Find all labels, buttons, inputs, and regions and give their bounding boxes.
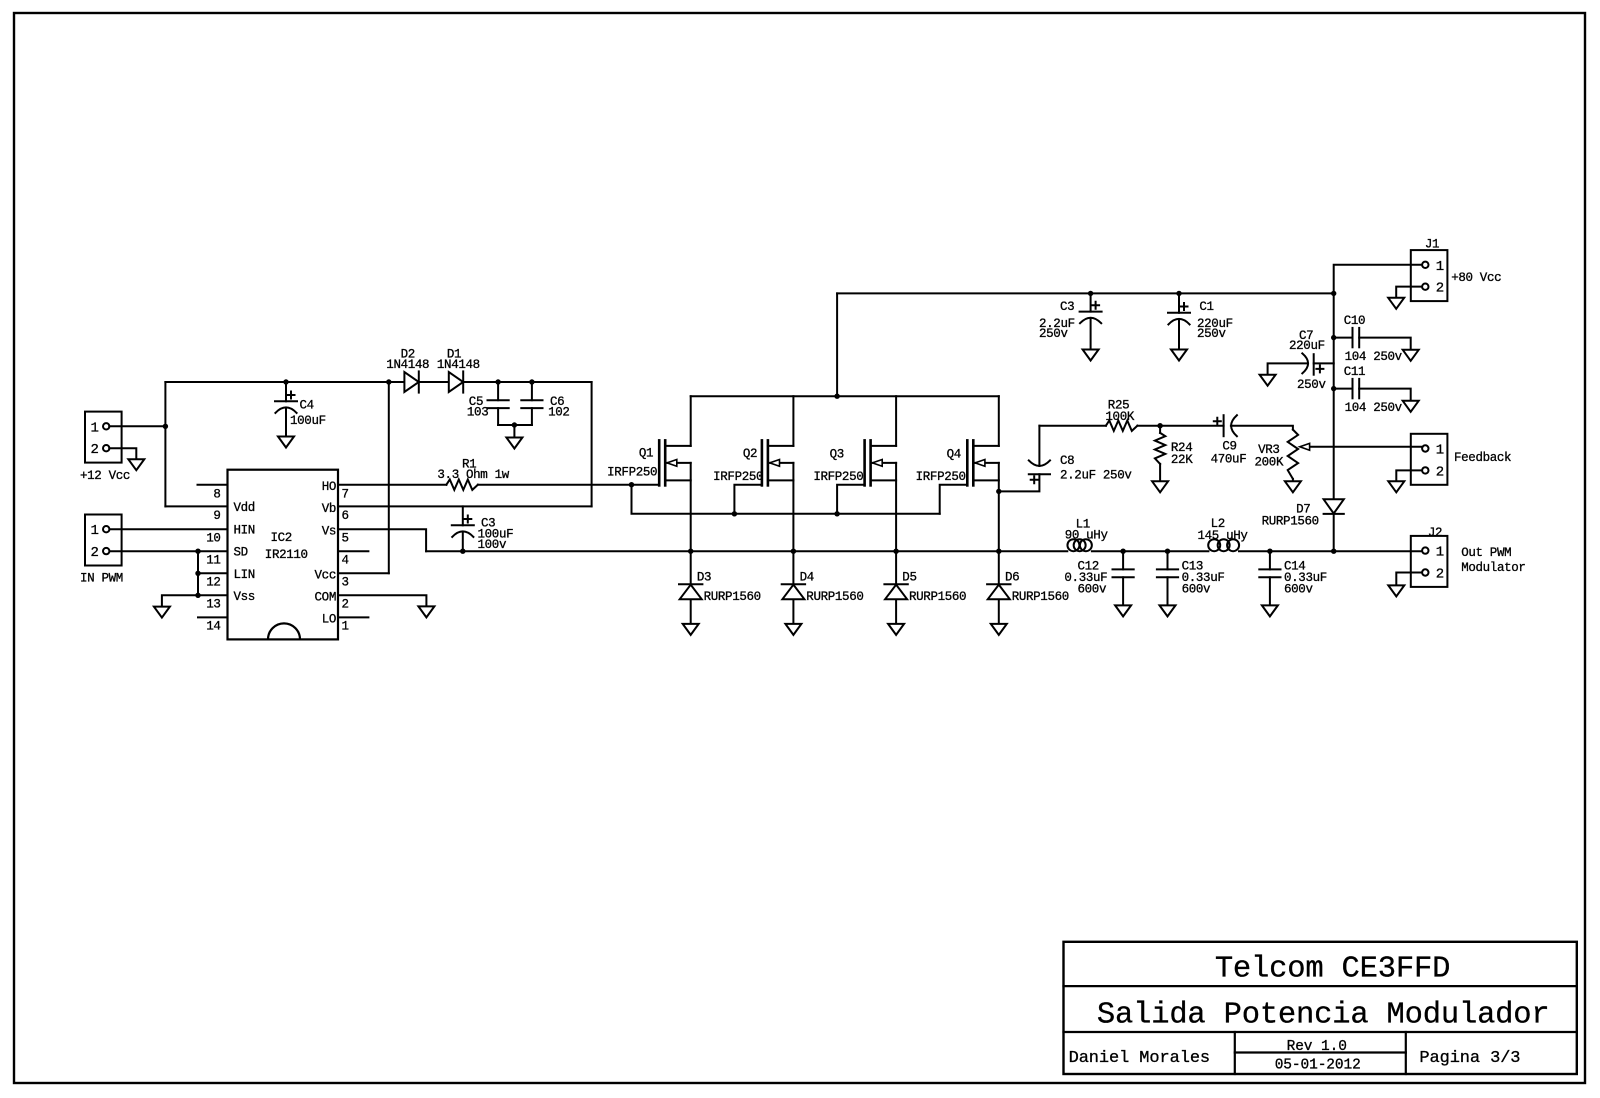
wire D6 anode to ground xyxy=(998,600,1000,624)
svg-text:10: 10 xyxy=(206,532,220,546)
wire Q4 gate riser xyxy=(940,485,968,514)
wire C13 stem xyxy=(1167,551,1169,569)
resistor R25 100K xyxy=(1106,421,1138,431)
junction C1 xyxy=(1176,291,1181,296)
inductor L2 145 uHy xyxy=(1208,539,1220,551)
connector J2 xyxy=(1411,536,1448,587)
wire C13 to ground xyxy=(1167,577,1169,605)
wire C14 to ground xyxy=(1269,577,1271,605)
capacitor C3 2.2uF 250v xyxy=(1080,311,1102,313)
svg-text:2: 2 xyxy=(342,598,349,612)
wire drain rail xyxy=(691,395,999,397)
svg-text:100v: 100v xyxy=(478,538,507,552)
ground (C11) xyxy=(1403,401,1419,412)
resistor R24 22K xyxy=(1155,433,1165,464)
svg-text:3.3 Ohm 1w: 3.3 Ohm 1w xyxy=(437,468,509,482)
wire J2 pin2 to ground xyxy=(1396,573,1421,586)
svg-text:103: 103 xyxy=(467,406,488,420)
capacitor C6 102 xyxy=(521,399,542,401)
wire C6 stem xyxy=(531,382,533,400)
svg-text:1: 1 xyxy=(1436,443,1444,459)
svg-text:Telcom CE3FFD: Telcom CE3FFD xyxy=(1215,953,1450,987)
wire R24 bottom lead xyxy=(1159,464,1161,481)
ground (COM) xyxy=(418,606,434,617)
svg-text:600v: 600v xyxy=(1284,583,1313,597)
junction C6/rail xyxy=(529,379,534,384)
svg-text:+80 Vcc: +80 Vcc xyxy=(1451,271,1501,285)
junction Q1 source / bus xyxy=(688,549,693,554)
capacitor C9 470uF (electrolytic, horizontal) xyxy=(1223,415,1225,436)
transistor Q3 (IRFP250 N-MOSFET) xyxy=(863,440,866,485)
wire Vb corner drop xyxy=(591,382,593,506)
wire IC2 Vs pin 5 jog xyxy=(338,529,426,551)
svg-text:C3: C3 xyxy=(1060,300,1074,314)
svg-text:C4: C4 xyxy=(300,399,314,413)
svg-text:RURP1560: RURP1560 xyxy=(1012,590,1069,604)
svg-text:C11: C11 xyxy=(1344,365,1365,379)
diode D6 RURP1560 xyxy=(987,583,1010,585)
svg-text:600v: 600v xyxy=(1182,583,1211,597)
svg-text:Vcc: Vcc xyxy=(315,568,336,582)
IC2 pin 10 HIN wire from IN PWM pin1 xyxy=(109,528,227,530)
svg-text:Q3: Q3 xyxy=(830,448,844,462)
wire D4 anode to ground xyxy=(792,600,794,624)
diode D5 RURP1560 xyxy=(884,583,907,585)
wire C4 stem xyxy=(285,382,287,401)
svg-text:220uF: 220uF xyxy=(1289,339,1325,353)
wire D6 cathode stem xyxy=(998,551,1000,584)
svg-text:HIN: HIN xyxy=(234,524,255,538)
wire C3 bottom to Vs bus xyxy=(462,532,464,551)
wire gate bus xyxy=(632,485,940,514)
junction C3/Vs bus xyxy=(460,549,465,554)
wire C5-C6 common xyxy=(498,424,532,426)
junction C5/rail xyxy=(495,379,500,384)
wire D2 cathode to D1 anode xyxy=(419,381,449,383)
wire C11 left xyxy=(1334,388,1353,390)
junction C13 / bus xyxy=(1165,549,1170,554)
svg-text:Daniel Morales: Daniel Morales xyxy=(1069,1049,1210,1068)
wire C3b to ground xyxy=(1090,318,1092,349)
ground (C4) xyxy=(278,437,294,448)
wire C5 stem xyxy=(497,382,499,400)
svg-text:RURP1560: RURP1560 xyxy=(806,590,863,604)
wire C10 left xyxy=(1334,337,1353,339)
svg-text:IRFP250: IRFP250 xyxy=(607,466,657,480)
wire +80V feed riser xyxy=(836,293,838,396)
IC2 pin 11 SD wire from IN PWM pin2 xyxy=(109,550,227,552)
junction drain rail / +80V feed xyxy=(834,394,839,399)
wire +80V top rail xyxy=(837,292,1334,294)
connector J-+12Vcc xyxy=(85,412,122,463)
ground (D3) xyxy=(683,624,699,635)
svg-text:5: 5 xyxy=(342,532,349,546)
Feedback pin 1 xyxy=(1422,445,1428,451)
transistor Q1 (IRFP250 N-MOSFET) xyxy=(658,440,661,485)
IC2 pin 8 stub xyxy=(198,484,228,486)
svg-text:IR2110: IR2110 xyxy=(265,548,308,562)
capacitor C11 104 250v xyxy=(1352,379,1354,398)
capacitor C10 104 250v xyxy=(1352,328,1354,347)
svg-text:2: 2 xyxy=(1436,281,1444,297)
svg-text:Out PWM: Out PWM xyxy=(1461,546,1511,560)
wire C1 to ground xyxy=(1178,319,1180,349)
svg-text:145 uHy: 145 uHy xyxy=(1198,529,1249,543)
svg-text:90 uHy: 90 uHy xyxy=(1065,528,1109,542)
ground (C14) xyxy=(1262,605,1278,616)
junction C10 xyxy=(1331,335,1336,340)
junction Q4 source / bus xyxy=(996,549,1001,554)
junction SD xyxy=(195,549,200,554)
svg-text:C10: C10 xyxy=(1344,314,1365,328)
junction top rail / J1 bus xyxy=(1331,291,1336,296)
wire C10 right to ground xyxy=(1359,338,1411,350)
junction C3b xyxy=(1088,291,1093,296)
svg-text:Q2: Q2 xyxy=(743,447,757,461)
svg-text:600v: 600v xyxy=(1078,583,1107,597)
svg-text:13: 13 xyxy=(206,598,220,612)
svg-text:Salida Potencia Modulador: Salida Potencia Modulador xyxy=(1097,999,1550,1033)
svg-text:D3: D3 xyxy=(697,571,711,585)
svg-text:4: 4 xyxy=(342,553,349,567)
svg-text:Vs: Vs xyxy=(322,524,336,538)
wire +12Vcc pin2 jog to ground xyxy=(109,448,136,459)
ground (VR3) xyxy=(1285,481,1301,492)
svg-text:05-01-2012: 05-01-2012 xyxy=(1275,1058,1361,1074)
junction C11 xyxy=(1331,386,1336,391)
wire R1 to Q1 gate xyxy=(478,484,659,486)
wire IC2 Vcc pin 3 xyxy=(338,572,389,574)
wire Q3 gate riser xyxy=(837,485,865,514)
svg-text:470uF: 470uF xyxy=(1211,453,1247,467)
potentiometer VR3 200K xyxy=(1288,430,1298,479)
wire C8 bottom to Q4 source xyxy=(999,474,1040,491)
wire bus right of L2 to J2 xyxy=(1239,550,1421,552)
svg-text:IN PWM: IN PWM xyxy=(80,572,123,586)
capacitor C7 220uF 250v (electrolytic, horizontal) xyxy=(1302,353,1308,373)
svg-text:1: 1 xyxy=(91,523,99,539)
connector Feedback xyxy=(1411,434,1448,485)
IC2 pin 12 LIN wire xyxy=(198,572,228,574)
svg-text:12: 12 xyxy=(206,576,220,590)
wire Vb line to IC2 xyxy=(338,505,592,507)
junction gate bus tap xyxy=(629,482,634,487)
ground (J1 pin2) xyxy=(1388,298,1404,309)
diode D1 1N4148 xyxy=(449,372,463,392)
wire C4 to ground xyxy=(285,408,287,437)
wire +12Vcc pin1 to Vdd node xyxy=(109,425,165,427)
svg-text:1N4148: 1N4148 xyxy=(437,358,480,372)
wire J1 pin1 feed xyxy=(1334,265,1422,294)
wire D4 cathode stem xyxy=(792,551,794,584)
capacitor C3 100uF 100v (bootstrap) xyxy=(452,524,474,526)
connector J-INPWM xyxy=(85,515,122,566)
ground (C10) xyxy=(1403,350,1419,361)
junction C5/C6 ground node xyxy=(512,422,517,427)
capacitor C5 103 xyxy=(488,399,509,401)
wire D5 anode to ground xyxy=(895,600,897,624)
wire Vs output bus (left of L1) xyxy=(426,550,1067,552)
capacitor C4 100uF (electrolytic) xyxy=(275,400,297,402)
svg-text:250v: 250v xyxy=(1197,327,1226,341)
ground (R24) xyxy=(1152,481,1168,492)
svg-text:D6: D6 xyxy=(1005,571,1019,585)
svg-text:14: 14 xyxy=(206,620,220,634)
wire C12 stem xyxy=(1122,551,1124,569)
wire R24 top lead xyxy=(1159,426,1161,433)
ground (J2 pin2) xyxy=(1388,585,1404,596)
svg-text:2: 2 xyxy=(91,442,99,458)
svg-text:D4: D4 xyxy=(800,571,814,585)
svg-text:Vdd: Vdd xyxy=(234,501,255,515)
svg-text:LO: LO xyxy=(322,613,336,627)
wire C3 stem from Vb xyxy=(462,506,464,525)
wire D5 cathode stem xyxy=(895,551,897,584)
svg-text:200K: 200K xyxy=(1255,455,1284,469)
resistor R1 3.3 Ohm 1w xyxy=(446,480,478,490)
wire C11 right to ground xyxy=(1359,389,1411,401)
junction Q3 source / bus xyxy=(893,549,898,554)
IC2 pin 4 stub xyxy=(338,550,368,552)
junction R24 xyxy=(1157,423,1162,428)
svg-text:Feedback: Feedback xyxy=(1454,451,1511,465)
svg-text:Vss: Vss xyxy=(234,590,255,604)
wire VR3 bottom lead xyxy=(1292,479,1294,481)
wire R25 to C9 xyxy=(1137,425,1223,427)
wire C3b stem xyxy=(1090,293,1092,311)
junction C4/top rail xyxy=(283,379,288,384)
IC2 pin 2 COM wire to ground xyxy=(338,595,426,606)
svg-text:IRFP250: IRFP250 xyxy=(916,470,966,484)
wire IC2 HO pin 7 xyxy=(338,484,446,486)
svg-text:1: 1 xyxy=(1436,259,1444,275)
wire D3 anode to ground xyxy=(690,600,692,624)
svg-text:104 250v: 104 250v xyxy=(1345,350,1403,364)
svg-text:8: 8 xyxy=(213,487,220,501)
svg-text:Q4: Q4 xyxy=(947,448,961,462)
wire Q2 gate riser xyxy=(734,485,762,514)
wire Feedback pin2 to ground xyxy=(1396,470,1421,481)
junction Q3 gate riser xyxy=(834,511,839,516)
svg-text:C8: C8 xyxy=(1060,454,1074,468)
svg-text:7: 7 xyxy=(342,487,349,501)
wire C9 to VR3 xyxy=(1231,426,1293,430)
diode D2 1N4148 xyxy=(404,372,418,392)
op-amp/driver IC2 IR2110 body xyxy=(228,470,339,640)
svg-text:RURP1560: RURP1560 xyxy=(1262,514,1319,528)
svg-text:9: 9 xyxy=(213,509,220,523)
ground (Feedback pin2) xyxy=(1388,481,1404,492)
junction Q4 source / C8 xyxy=(996,489,1001,494)
svg-text:102: 102 xyxy=(548,406,569,420)
svg-text:J2: J2 xyxy=(1428,526,1442,540)
svg-text:C1: C1 xyxy=(1199,300,1213,314)
svg-text:Rev 1.0: Rev 1.0 xyxy=(1287,1039,1347,1055)
wire +12V top rail xyxy=(165,381,404,383)
svg-text:2: 2 xyxy=(1436,464,1444,480)
svg-text:RURP1560: RURP1560 xyxy=(704,590,761,604)
svg-text:D5: D5 xyxy=(902,571,916,585)
wire C14 stem xyxy=(1269,551,1271,569)
svg-text:Vb: Vb xyxy=(322,502,336,516)
ground (Vss) xyxy=(154,607,170,618)
ground (C3b) xyxy=(1083,350,1099,361)
svg-text:2: 2 xyxy=(1436,567,1444,583)
wire C12 to ground xyxy=(1122,577,1124,605)
wire C8 top stem xyxy=(1038,426,1040,466)
wire SD/LIN/Vss tie bus xyxy=(197,551,199,595)
wire C1 stem xyxy=(1178,293,1180,312)
wire to ground xyxy=(513,425,515,438)
diode D4 RURP1560 xyxy=(782,583,805,585)
wire C8/R25 xyxy=(1039,425,1106,427)
transistor Q2 (IRFP250 N-MOSFET) xyxy=(761,440,764,485)
svg-text:COM: COM xyxy=(315,590,336,604)
junction C12 / bus xyxy=(1120,549,1125,554)
junction D7 / output bus xyxy=(1331,549,1336,554)
junction Vss xyxy=(195,593,200,598)
wire +12V vertical xyxy=(164,382,166,506)
svg-text:22K: 22K xyxy=(1171,453,1193,467)
J-+12Vcc pin 2 xyxy=(103,445,109,451)
svg-text:1: 1 xyxy=(342,620,349,634)
svg-text:1N4148: 1N4148 xyxy=(386,358,429,372)
junction LIN xyxy=(195,571,200,576)
svg-text:IRFP250: IRFP250 xyxy=(713,470,763,484)
J-INPWM pin 1 xyxy=(103,526,109,532)
IC2 pin 14 stub xyxy=(198,616,228,618)
ground (C1) xyxy=(1171,350,1187,361)
ground (D5) xyxy=(888,624,904,635)
junction Q2 gate riser xyxy=(732,511,737,516)
wire C7 left to ground xyxy=(1268,363,1308,374)
svg-text:IRFP250: IRFP250 xyxy=(813,470,863,484)
svg-text:250v: 250v xyxy=(1039,327,1068,341)
svg-text:100K: 100K xyxy=(1105,410,1134,424)
svg-text:250v: 250v xyxy=(1297,378,1326,392)
ground (C13) xyxy=(1160,605,1176,616)
capacitor C12 0.33uF 600v xyxy=(1113,568,1134,570)
svg-text:1: 1 xyxy=(91,420,99,436)
svg-text:104 250v: 104 250v xyxy=(1345,401,1403,415)
svg-text:Pagina 3/3: Pagina 3/3 xyxy=(1419,1049,1520,1068)
junction rail/Vcc drop xyxy=(386,379,391,384)
title block xyxy=(1064,942,1577,1074)
wire C7 plate to bus xyxy=(1314,362,1334,364)
wire D3 cathode stem xyxy=(690,551,692,584)
J-+12Vcc pin 1 xyxy=(103,423,109,429)
J2 pin 1 xyxy=(1422,547,1428,553)
transistor Q4 (IRFP250 N-MOSFET) xyxy=(966,440,969,485)
svg-text:2.2uF 250v: 2.2uF 250v xyxy=(1060,469,1132,483)
svg-text:Q1: Q1 xyxy=(639,447,653,461)
wire D7 cathode to output bus xyxy=(1333,514,1335,551)
J1 pin 2 xyxy=(1422,284,1428,290)
svg-text:Modulator: Modulator xyxy=(1461,561,1525,575)
svg-text:SD: SD xyxy=(234,546,248,560)
capacitor C14 0.33uF 600v xyxy=(1259,568,1280,570)
svg-text:+12 Vcc: +12 Vcc xyxy=(80,469,130,483)
svg-text:LIN: LIN xyxy=(234,568,255,582)
VR3 wiper arrow wire from Feedback xyxy=(1309,446,1421,448)
svg-text:3: 3 xyxy=(342,576,349,590)
wire C5 bottom xyxy=(497,408,499,425)
svg-text:HO: HO xyxy=(322,480,336,494)
junction C14 / bus xyxy=(1267,549,1272,554)
svg-text:11: 11 xyxy=(206,554,220,568)
connector J1 xyxy=(1411,250,1448,301)
inductor L1 90 uHy xyxy=(1067,539,1079,551)
ground (C7) xyxy=(1260,375,1276,386)
IC2 pin 13 Vss wire to ground xyxy=(162,595,228,606)
svg-text:1: 1 xyxy=(1436,545,1444,561)
IC2 pin 1 LO stub xyxy=(338,616,368,618)
ground (D6) xyxy=(991,624,1007,635)
junction Q2 source / bus xyxy=(791,549,796,554)
wire D1 cathode rail to Vb corner xyxy=(463,381,591,383)
svg-text:2: 2 xyxy=(91,545,99,561)
ground (+12Vcc pin2) xyxy=(128,459,144,470)
capacitor C1 220uF 250v xyxy=(1168,312,1190,314)
node +12V: junction dot xyxy=(163,424,168,429)
capacitor C8 2.2uF 250v (electrolytic) xyxy=(1029,460,1050,466)
wire J1 pin2 to ground xyxy=(1396,287,1421,298)
ground (C12) xyxy=(1115,605,1131,616)
diode D7 RURP1560 xyxy=(1324,499,1344,513)
svg-text:100uF: 100uF xyxy=(290,414,326,428)
svg-text:J1: J1 xyxy=(1425,237,1439,251)
ground (C5/C6) xyxy=(506,438,522,449)
svg-text:C9: C9 xyxy=(1222,440,1236,454)
wire +80V vertical bus xyxy=(1333,293,1335,499)
wire bus between L1 and L2 xyxy=(1092,550,1209,552)
wire vertical rail to IC2 Vcc xyxy=(388,382,390,573)
svg-text:6: 6 xyxy=(342,509,349,523)
J2 pin 2 xyxy=(1422,569,1428,575)
J1 pin 1 xyxy=(1422,262,1428,268)
svg-text:IC2: IC2 xyxy=(271,531,292,545)
wire C6 bottom xyxy=(531,408,533,425)
Feedback pin 2 xyxy=(1422,467,1428,473)
capacitor C13 0.33uF 600v xyxy=(1157,568,1178,570)
J-INPWM pin 2 xyxy=(103,548,109,554)
ground (D4) xyxy=(785,624,801,635)
wire Vdd to IC2 xyxy=(165,505,227,507)
diode D3 RURP1560 xyxy=(679,583,702,585)
svg-text:RURP1560: RURP1560 xyxy=(909,590,966,604)
